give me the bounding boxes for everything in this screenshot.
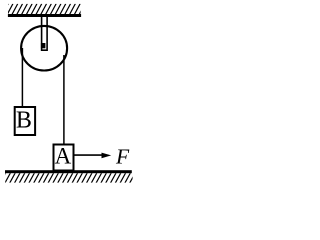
ground hatching xyxy=(0,173,135,184)
pulley axle xyxy=(41,43,46,48)
svg-text:F: F xyxy=(115,144,130,168)
ceiling line xyxy=(8,14,81,17)
ceiling hatching xyxy=(2,4,85,16)
force arrow F xyxy=(75,153,112,159)
pulley bracket xyxy=(42,17,48,50)
rope right segment xyxy=(63,55,65,144)
svg-text:B: B xyxy=(16,108,32,134)
pulley circle xyxy=(21,26,67,71)
ground line xyxy=(5,170,132,173)
block A xyxy=(54,145,74,171)
block B xyxy=(15,107,35,135)
svg-text:A: A xyxy=(55,143,72,168)
rope left segment xyxy=(21,48,23,107)
